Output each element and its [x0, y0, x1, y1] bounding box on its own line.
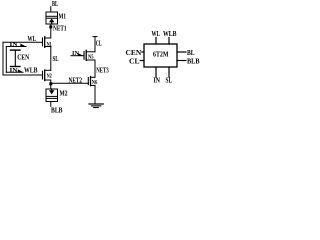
svg-text:BL: BL [187, 49, 195, 57]
pin WLB stub [168, 38, 170, 45]
svg-text:6T2M: 6T2M [153, 50, 169, 59]
wire WLB to N2 gate [3, 74, 43, 76]
pin CL stub [140, 60, 144, 62]
pin WL stub [155, 38, 157, 45]
svg-text:M1: M1 [59, 13, 67, 21]
svg-text:BLB: BLB [51, 107, 63, 115]
node NET2 junction dot [49, 82, 52, 85]
pin CEN stub [142, 51, 144, 53]
node NET1 junction dot [49, 25, 52, 28]
ground [89, 104, 103, 108]
memristor M2 [46, 89, 58, 102]
svg-text:NET2: NET2 [69, 77, 83, 85]
transistor N5 [84, 50, 95, 60]
wire WL to N1 gate [3, 41, 43, 43]
svg-text:CEN: CEN [17, 54, 30, 62]
svg-text:BL: BL [52, 0, 58, 8]
svg-text:IN: IN [10, 67, 18, 74]
transistor N3 gate bar [11, 49, 21, 51]
wire BL stub [50, 7, 52, 12]
svg-text:IN: IN [10, 41, 18, 48]
svg-text:WL: WL [152, 30, 161, 38]
wire CEN vertical [14, 50, 16, 66]
svg-text:M2: M2 [60, 89, 68, 97]
port CL tick [93, 36, 97, 38]
svg-text:N2: N2 [47, 72, 52, 79]
pin BL stub [177, 51, 186, 53]
svg-text:SL: SL [166, 76, 173, 84]
transistor N2 [43, 70, 51, 81]
memristor M1 [46, 12, 58, 24]
wire N6 source to ground [94, 85, 96, 103]
block 6T2M box [144, 44, 177, 67]
svg-text:NET1: NET1 [53, 25, 67, 33]
transistor N4 gate bar [11, 66, 21, 68]
wire left inner vertical [5, 47, 7, 73]
transistor N6 [88, 77, 95, 86]
wire N2 source to M2 [50, 80, 52, 89]
svg-text:N6: N6 [92, 79, 98, 86]
wire CL vertical [94, 37, 96, 52]
wire M2 to BLB [50, 102, 52, 107]
wire left outer vertical [2, 42, 4, 75]
svg-text:NET3: NET3 [96, 66, 109, 74]
input IN upper arrow [6, 44, 26, 47]
input IN middle arrow [71, 53, 84, 56]
wire N5 source to N6 drain [94, 60, 96, 77]
svg-text:CEN: CEN [126, 49, 143, 57]
svg-text:CL: CL [96, 40, 102, 48]
svg-text:N5: N5 [88, 53, 94, 60]
svg-text:BLB: BLB [187, 57, 200, 65]
wire SL column [50, 47, 52, 71]
svg-text:WLB: WLB [24, 67, 38, 75]
wire M1 to N1 drain [50, 24, 52, 38]
pin IN stub [155, 67, 157, 77]
svg-text:CL: CL [129, 57, 140, 65]
transistor N1 [43, 37, 51, 48]
svg-text:SL: SL [53, 55, 59, 63]
input IN lower arrow [6, 69, 23, 72]
pin SL stub [168, 67, 170, 77]
wire NET2 to N6 gate [51, 82, 89, 84]
pin BLB stub [177, 60, 186, 62]
svg-text:WLB: WLB [163, 30, 177, 38]
svg-text:IN: IN [72, 50, 79, 57]
svg-text:IN: IN [154, 76, 161, 84]
